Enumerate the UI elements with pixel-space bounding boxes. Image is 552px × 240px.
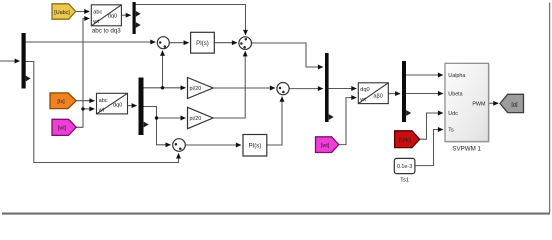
svg-text:[Udc]: [Udc]	[399, 137, 412, 143]
svg-text:PI(s): PI(s)	[249, 144, 262, 150]
svg-text:dq0: dq0	[113, 102, 122, 108]
svg-text:dq0: dq0	[108, 14, 117, 20]
svg-text:0.1e-3: 0.1e-3	[397, 164, 412, 170]
svg-text:dq0: dq0	[360, 87, 369, 93]
svg-text:[wt]: [wt]	[58, 126, 67, 132]
svg-text:abc to dq3: abc to dq3	[92, 27, 121, 34]
svg-text:abc: abc	[99, 98, 108, 104]
svg-text:abc: abc	[93, 9, 102, 15]
svg-text:[Is]: [Is]	[57, 99, 65, 105]
svg-text:Ts: Ts	[448, 128, 454, 134]
svg-text:SVPWM 1: SVPWM 1	[452, 146, 481, 153]
svg-text:wt: wt	[92, 19, 99, 25]
svg-text:[g]: [g]	[511, 102, 518, 108]
svg-text:wt: wt	[98, 108, 105, 114]
svg-text:PWM: PWM	[472, 101, 486, 107]
svg-text:Udc: Udc	[448, 111, 458, 117]
svg-text:pi/20: pi/20	[190, 86, 202, 92]
svg-text:[Uabc]: [Uabc]	[54, 10, 70, 16]
svg-text:Ubeta: Ubeta	[448, 92, 462, 98]
svg-text:PI(s): PI(s)	[196, 41, 209, 47]
svg-text:[wt]: [wt]	[321, 143, 330, 149]
svg-text:Ts1: Ts1	[400, 177, 409, 183]
svg-text:aβ0: aβ0	[373, 93, 382, 99]
svg-text:Ualpha: Ualpha	[448, 73, 465, 79]
svg-text:wt: wt	[359, 97, 366, 103]
svg-text:pi/20: pi/20	[190, 116, 202, 122]
